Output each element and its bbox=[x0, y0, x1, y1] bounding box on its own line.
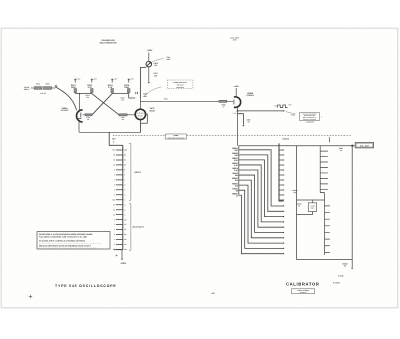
wire pot wiper to grid line bbox=[140, 67, 146, 98]
svg-text:51: 51 bbox=[236, 194, 238, 197]
svg-text:.02: .02 bbox=[124, 223, 126, 226]
arrow OFF pointer bbox=[113, 141, 115, 143]
svg-text:6AU6: 6AU6 bbox=[149, 109, 155, 112]
wire column jog bbox=[320, 192, 324, 194]
switch column lower taps bbox=[324, 193, 326, 255]
svg-text:100 VOLT POSITION: 100 VOLT POSITION bbox=[303, 119, 316, 121]
wire V885B grid line bbox=[140, 100, 219, 102]
resistor R868 bbox=[44, 87, 52, 90]
svg-text:+225V: +225V bbox=[93, 79, 97, 81]
wire V875 cathode down bbox=[139, 119, 141, 132]
svg-text:5.1K: 5.1K bbox=[234, 164, 239, 167]
svg-text:+: + bbox=[321, 116, 322, 119]
svg-text:1: 1 bbox=[124, 198, 125, 201]
wire box bottom to frame bbox=[297, 212, 313, 215]
svg-text:2W: 2W bbox=[344, 265, 347, 268]
power -150V arrow bbox=[121, 259, 123, 261]
bracket SW880A upper bbox=[129, 144, 131, 201]
resistor R876 bbox=[128, 89, 130, 93]
svg-text:½12AU7: ½12AU7 bbox=[61, 109, 70, 112]
labels SW880A values bbox=[124, 149, 127, 252]
wire wafer to -150V bbox=[121, 250, 123, 259]
waveform square-wave symbol bbox=[278, 105, 288, 108]
svg-text:510: 510 bbox=[235, 179, 238, 182]
wire divider tap R880E bbox=[239, 170, 283, 227]
wire divider tap R880C bbox=[239, 160, 283, 217]
power +225V hook 3 bbox=[111, 79, 113, 83]
tube V885B envelope bbox=[234, 97, 241, 108]
arrow cal out bbox=[283, 110, 285, 112]
bracket SW880A lower bbox=[129, 204, 131, 250]
svg-text:2: 2 bbox=[114, 173, 115, 176]
svg-text:.5: .5 bbox=[114, 233, 115, 236]
leader CAL ADJ bbox=[152, 59, 164, 63]
svg-text:SEE ALSO IMPORTANT NOTE ON PRE: SEE ALSO IMPORTANT NOTE ON PRECEDING PAG… bbox=[39, 245, 92, 248]
svg-text:VOLTAGE READINGS: VOLTAGE READINGS bbox=[303, 113, 317, 115]
wire divider tap R880J bbox=[239, 190, 283, 248]
potentiometer R879 CAL ADJ bbox=[146, 61, 152, 67]
switch SW880A wiper contact bbox=[114, 249, 123, 251]
wire box top bbox=[311, 200, 313, 203]
svg-text:ADJ.: ADJ. bbox=[166, 58, 171, 61]
wire R876 bottom bbox=[128, 93, 130, 94]
wire divider tap R880A bbox=[239, 150, 283, 206]
svg-text:WERE OBTAINED: WERE OBTAINED bbox=[304, 115, 315, 117]
svg-text:.5: .5 bbox=[124, 183, 125, 186]
svg-text:+7.5: +7.5 bbox=[232, 112, 235, 115]
svg-text:+75: +75 bbox=[274, 105, 277, 108]
power -150V arrow right bbox=[351, 268, 353, 270]
svg-text:.005: .005 bbox=[154, 74, 158, 77]
label box AMPLITUDE CALIBRATOR bbox=[165, 134, 186, 139]
power +225V hook 2 bbox=[91, 79, 93, 83]
svg-text:½12AU7: ½12AU7 bbox=[246, 94, 255, 97]
component box R892 bbox=[308, 203, 316, 212]
svg-text:1: 1 bbox=[114, 178, 115, 181]
svg-text:WITH CONTROLS AT: WITH CONTROLS AT bbox=[303, 117, 317, 119]
wire grid lead curve bbox=[57, 88, 77, 111]
junction output node bbox=[351, 145, 353, 147]
svg-text:CAL. OUT: CAL. OUT bbox=[360, 144, 370, 147]
node tap end R880D bbox=[283, 221, 284, 222]
node tap end R880J bbox=[283, 248, 284, 249]
svg-text:50: 50 bbox=[113, 203, 115, 206]
tube V875 envelope bbox=[135, 109, 145, 119]
node tap end R880G bbox=[283, 237, 284, 238]
switch SW880B bus bbox=[279, 143, 284, 201]
leader to note box bbox=[286, 112, 296, 114]
resistor R866 bbox=[34, 87, 42, 90]
wire frame right bbox=[351, 146, 353, 260]
resistor R871 bbox=[74, 89, 76, 93]
op-amp none; tube V885A envelope bbox=[77, 110, 83, 122]
svg-text:5: 5 bbox=[124, 169, 125, 172]
wire R871 bottom bbox=[74, 93, 76, 94]
wire V885B cathode to divider bus bbox=[238, 146, 240, 196]
wire +100V down bbox=[148, 52, 150, 61]
wire frame to -150V bbox=[351, 260, 353, 268]
svg-text:+225V: +225V bbox=[76, 79, 80, 81]
svg-text:.05: .05 bbox=[247, 121, 249, 124]
tube V885A cathode bbox=[77, 118, 81, 120]
svg-text:±3%: ±3% bbox=[233, 39, 237, 42]
mark plus bottom left bbox=[29, 295, 32, 298]
wire divider tap R880B bbox=[239, 155, 283, 211]
svg-text:R-12-58: R-12-58 bbox=[333, 282, 340, 285]
capacitor C878 bbox=[135, 92, 137, 98]
node tap end R880K bbox=[283, 253, 284, 254]
labels SW880A positions bbox=[112, 149, 115, 252]
note switch position dashed box bbox=[167, 80, 193, 89]
wire V885A cathode down bbox=[78, 122, 80, 133]
svg-text:5: 5 bbox=[114, 169, 115, 172]
title box bbox=[292, 289, 315, 294]
wire cathode tee bbox=[237, 114, 243, 125]
svg-text:100: 100 bbox=[112, 149, 115, 152]
svg-text:2.4K: 2.4K bbox=[234, 169, 239, 172]
wire divider tap R880D bbox=[239, 165, 283, 222]
resistor R882 bbox=[85, 114, 92, 116]
svg-text:9.9K: 9.9K bbox=[234, 159, 239, 162]
wire grid V875 bbox=[127, 114, 136, 116]
wire cross-coupling B bbox=[92, 94, 112, 115]
svg-text:SN 101-UP: SN 101-UP bbox=[300, 292, 307, 294]
svg-text:S. DIAGRAM: S. DIAGRAM bbox=[305, 121, 314, 123]
junction cathode bbox=[237, 110, 239, 112]
svg-text:5: 5 bbox=[114, 218, 115, 221]
svg-text:240: 240 bbox=[235, 184, 238, 187]
svg-text:.2: .2 bbox=[124, 208, 125, 211]
power arrow capacitor branch bbox=[242, 125, 244, 127]
switch SW880A bus bbox=[122, 145, 124, 249]
wire input bbox=[31, 87, 34, 89]
wire V875 screen loop bbox=[141, 114, 147, 123]
wire V885A plate bbox=[79, 94, 81, 111]
switch column upper taps bbox=[319, 146, 321, 193]
svg-text:1: 1 bbox=[124, 178, 125, 181]
svg-text:20: 20 bbox=[124, 159, 126, 162]
svg-text:FOLLOWING CONDITIONS: LINE VOL: FOLLOWING CONDITIONS: LINE VOLTAGE 117V … bbox=[39, 236, 88, 239]
leader dashed note bbox=[143, 87, 162, 97]
svg-text:.5m: .5m bbox=[124, 248, 127, 251]
wire cross-coupling A bbox=[92, 94, 119, 115]
mark plus under wafer bbox=[115, 254, 117, 256]
note box voltage conditions bbox=[300, 113, 320, 121]
node tap end R880H bbox=[283, 243, 284, 244]
wire plate bus right pair bbox=[112, 93, 129, 95]
tube V875 grid dashes bbox=[137, 113, 143, 116]
wire divider tap R880F bbox=[239, 175, 283, 232]
note dashes in box bbox=[39, 243, 102, 248]
svg-text:+225V: +225V bbox=[130, 79, 134, 81]
node tap end R880F bbox=[283, 232, 284, 233]
wire grid V885A bbox=[83, 114, 86, 116]
svg-text:AMPLITUDE CALIBRATOR: AMPLITUDE CALIBRATOR bbox=[167, 137, 184, 139]
svg-text:10: 10 bbox=[113, 213, 115, 216]
svg-text:2: 2 bbox=[124, 173, 125, 176]
wire drop to SW880A bbox=[109, 132, 123, 145]
tube V885A grid bar bbox=[80, 113, 82, 118]
wire frame bottom bbox=[297, 259, 353, 261]
wire divider top bus bbox=[239, 145, 355, 147]
resistor R884 bbox=[119, 114, 127, 116]
wire R876 bottom bbox=[129, 94, 136, 98]
svg-text:CALIBRATOR: CALIBRATOR bbox=[286, 282, 320, 287]
svg-text:50: 50 bbox=[124, 154, 126, 157]
power +225V hook 4 bbox=[128, 79, 130, 83]
svg-text:.1: .1 bbox=[114, 243, 115, 246]
svg-text:TYPE 545 OSCILLOSCOPE: TYPE 545 OSCILLOSCOPE bbox=[55, 284, 117, 288]
svg-text:.2: .2 bbox=[124, 188, 125, 191]
wire frame left bbox=[296, 146, 298, 260]
resistor R874 bbox=[111, 89, 113, 93]
svg-text:NO SIGNAL INPUT. CONTROLS AT N: NO SIGNAL INPUT. CONTROLS AT NORMAL SETT… bbox=[39, 239, 86, 242]
resistor R872 bbox=[91, 89, 93, 93]
svg-text:20: 20 bbox=[113, 208, 115, 211]
wire cal out bbox=[237, 110, 283, 112]
svg-text:.5: .5 bbox=[114, 183, 115, 186]
wire V885B cathode down bbox=[236, 107, 238, 146]
svg-text:C LAMP: C LAMP bbox=[310, 205, 315, 207]
node tap end R880E bbox=[283, 227, 284, 228]
svg-text:1: 1 bbox=[114, 228, 115, 231]
switch SW880B contacts bbox=[279, 150, 283, 200]
svg-text:.5: .5 bbox=[124, 203, 125, 206]
svg-text:.1: .1 bbox=[124, 193, 125, 196]
svg-text:S-6-58: S-6-58 bbox=[338, 275, 343, 278]
svg-text:50: 50 bbox=[340, 149, 342, 152]
svg-text:50: 50 bbox=[113, 154, 115, 157]
wire cathode bus bbox=[79, 131, 141, 133]
svg-text:SERIAL NUMBER: SERIAL NUMBER bbox=[297, 290, 309, 292]
wire divider tap R880G bbox=[239, 180, 283, 238]
svg-text:2: 2 bbox=[114, 223, 115, 226]
nodes SW880B contact dots bbox=[283, 149, 284, 150]
wire R874 bottom bbox=[111, 93, 113, 94]
tube V885B grid bar bbox=[233, 100, 235, 105]
arrow linkage to SW880B bbox=[329, 139, 331, 142]
svg-text:750: 750 bbox=[86, 96, 89, 99]
svg-text:MULTIVIBRATOR: MULTIVIBRATOR bbox=[100, 41, 117, 44]
wire divider tap R880H bbox=[239, 185, 283, 243]
svg-text:+100V: +100V bbox=[146, 49, 153, 52]
resistor R885 bbox=[219, 100, 227, 102]
svg-text:100: 100 bbox=[124, 149, 127, 152]
svg-text:.01: .01 bbox=[124, 228, 126, 231]
svg-text:WAVEFORMS & VOLTAGE READINGS W: WAVEFORMS & VOLTAGE READINGS WERE OBTAIN… bbox=[39, 233, 93, 236]
wire mid tap bbox=[297, 199, 325, 201]
svg-text:20: 20 bbox=[113, 159, 115, 162]
wire R872 bottom bbox=[91, 93, 93, 94]
note box waveforms conditions bbox=[37, 232, 110, 249]
svg-text:SW880B: SW880B bbox=[282, 138, 290, 141]
svg-text:.1: .1 bbox=[114, 193, 115, 196]
svg-text:VOLTS: VOLTS bbox=[134, 171, 141, 174]
wire divider tap R880K bbox=[239, 195, 283, 253]
svg-text:99: 99 bbox=[236, 189, 238, 192]
switch SW880A contacts bbox=[116, 150, 123, 250]
svg-text:AA: AA bbox=[212, 292, 216, 295]
svg-text:100: 100 bbox=[112, 198, 115, 201]
wire pot bottom bbox=[148, 67, 150, 82]
power -150V arrow under pot bbox=[148, 82, 150, 84]
svg-text:990: 990 bbox=[235, 174, 238, 177]
svg-text:47: 47 bbox=[223, 105, 225, 108]
svg-text:750: 750 bbox=[121, 99, 124, 102]
wire switch linkage dashed bbox=[113, 135, 352, 137]
svg-text:MILLIVOLTS: MILLIVOLTS bbox=[133, 226, 145, 229]
svg-text:R892: R892 bbox=[311, 208, 314, 210]
wire plate bus left pair bbox=[75, 93, 92, 95]
svg-text:+225V: +225V bbox=[234, 85, 240, 88]
svg-text:.05: .05 bbox=[124, 218, 126, 221]
svg-text:10: 10 bbox=[113, 164, 115, 167]
svg-text:+225V: +225V bbox=[113, 79, 117, 81]
wire V875 plate bbox=[139, 98, 141, 110]
wire V885B plate bbox=[235, 88, 237, 97]
terminal dot bbox=[55, 86, 57, 88]
svg-text:-150V: -150V bbox=[120, 262, 126, 265]
node tap end R880B bbox=[283, 211, 284, 212]
svg-text:.2: .2 bbox=[114, 188, 115, 191]
node tap end R880C bbox=[283, 216, 284, 217]
power +225V hook 1 bbox=[74, 79, 76, 83]
node tap end R880A bbox=[283, 205, 284, 206]
svg-text:SW670: SW670 bbox=[24, 88, 30, 91]
wire to terminal bbox=[52, 87, 56, 89]
wire R885 to grid bbox=[227, 100, 233, 102]
junction left plate bbox=[79, 93, 80, 94]
svg-text:.1: .1 bbox=[124, 213, 125, 216]
node CAL OUT box bbox=[355, 143, 373, 148]
svg-text:10: 10 bbox=[124, 164, 126, 167]
svg-text:.2: .2 bbox=[114, 238, 115, 241]
